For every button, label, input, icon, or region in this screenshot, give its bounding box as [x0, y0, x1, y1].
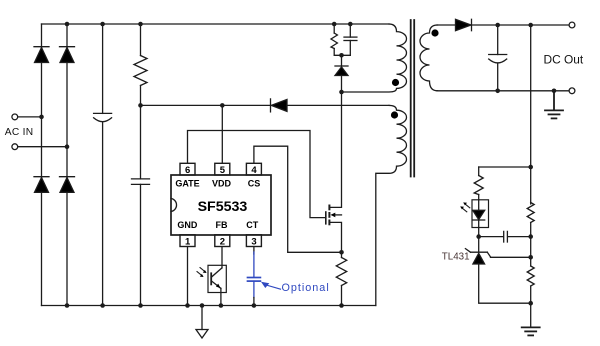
label CS pin name [248, 179, 261, 189]
label pin number 3 [251, 236, 256, 247]
pin 2 box [215, 235, 230, 247]
wire CS pin4 to sense node [254, 146, 342, 252]
node feedback branch junction [528, 165, 533, 170]
label GND pin name [177, 220, 198, 230]
wire output return rail [437, 90, 569, 92]
label VDD pin name [212, 179, 232, 189]
svg-text:DC Out: DC Out [544, 53, 584, 67]
optocoupler U2 phototransistor box [208, 265, 226, 292]
wire gate pin6 to MOSFET [188, 131, 326, 218]
resistor R2 (clamp) [331, 24, 350, 55]
transistor Q1 (power MOSFET) [326, 92, 342, 252]
svg-text:CS: CS [248, 179, 261, 189]
label AC IN [5, 127, 34, 138]
label pin number 6 [185, 165, 190, 176]
capacitor C1 (bulk electrolytic) [94, 24, 112, 306]
transistor Q2 (opto NPN) [211, 268, 222, 306]
node feedback divider tap [528, 23, 533, 28]
transformer T1 auxiliary winding [376, 105, 407, 305]
node primary phase dot [392, 79, 399, 86]
diode D5 (VDD rectifier, pointing left) [271, 99, 390, 112]
wire secondary top to output diode [437, 24, 455, 26]
wire bridge column 1 [41, 24, 43, 306]
wire GND pin1 lead [187, 247, 189, 306]
node snubber R tap [332, 22, 337, 27]
label pin number 5 [220, 165, 226, 176]
label SF5533 [198, 199, 248, 215]
resistor R5 (divider lower) [527, 266, 534, 326]
diode D1 (bridge top-left) [34, 47, 49, 63]
label Optional (blue) [282, 282, 330, 294]
wire TL431 ref to divider [491, 256, 531, 258]
capacitor C5 (output electrolytic) [489, 25, 507, 91]
node rail bulk cap [100, 303, 105, 308]
label pin number 1 [185, 236, 191, 247]
label pin number 4 [251, 165, 257, 176]
node rail ground tap [200, 303, 205, 308]
node rail bridge col2 [65, 303, 70, 308]
resistor R6 (opto LED series) [474, 167, 483, 200]
ground (output return) [545, 93, 563, 118]
node secondary phase dot [431, 29, 438, 36]
node rail GND pin [185, 303, 190, 308]
label CT pin name [246, 220, 258, 230]
label GATE pin name [175, 179, 199, 189]
diode D6 (clamp, cathode up) [335, 55, 348, 92]
node rail VDD cap [138, 303, 143, 308]
node top rail junction at bulk cap [100, 22, 105, 27]
node snubber C tap [348, 22, 353, 27]
label FB pin name [216, 220, 228, 230]
node auxiliary phase dot [391, 111, 398, 118]
svg-text:4: 4 [251, 165, 257, 176]
svg-text:2: 2 [220, 236, 225, 247]
wire CT cap to ground rail [253, 298, 255, 306]
light arrows into opto transistor [197, 268, 207, 277]
wire VDD line [141, 104, 271, 106]
wire bottom ground rail [42, 305, 376, 307]
node VDD tap on startup column [138, 103, 143, 108]
capacitor C3 (clamp) [344, 24, 357, 55]
diode D3 (bridge bottom-left) [34, 177, 49, 193]
svg-text:GND: GND [177, 220, 198, 230]
node divider bottom junction [528, 301, 533, 306]
diode D8 (opto LED) [473, 200, 485, 237]
label pin number 2 [220, 236, 225, 247]
light arrows out of opto LED [460, 202, 470, 211]
label TL431 [442, 252, 470, 263]
node AC line1 to column1 [39, 115, 44, 120]
svg-text:GATE: GATE [175, 179, 199, 189]
terminal DC Out positive [569, 22, 575, 28]
svg-text:3: 3 [251, 236, 256, 247]
terminal DC Out negative [569, 88, 575, 94]
svg-text:VDD: VDD [212, 179, 232, 189]
node output cap negative tap [495, 89, 500, 94]
node CS / source / sense junction [339, 250, 344, 255]
wire top rail [42, 23, 390, 25]
node clamp RC junction [339, 53, 344, 58]
svg-text:FB: FB [216, 220, 228, 230]
pin 3 box [246, 235, 261, 247]
node VDD pin5 junction [220, 103, 225, 108]
node sense resistor to rail [339, 303, 344, 308]
svg-text:SF5533: SF5533 [198, 199, 248, 215]
svg-text:AC IN: AC IN [5, 127, 34, 138]
node rail opto emitter [219, 303, 224, 308]
diode D7 (output rectifier) [456, 19, 472, 30]
node TL431 ref tap [528, 255, 533, 260]
svg-text:6: 6 [185, 165, 190, 176]
wire FB pin2 lead [221, 247, 223, 268]
IC U1 SF5533 body [171, 175, 271, 235]
node rail CT cap [252, 303, 257, 308]
transformer T1 primary winding [342, 24, 407, 92]
capacitor C4 (optional CT cap, blue) [248, 252, 261, 298]
wire bridge column 2 [66, 24, 68, 306]
node AC line2 to column2 [65, 144, 70, 149]
transformer T1 secondary winding [420, 25, 438, 91]
wire feedback sense column [530, 25, 532, 204]
resistor R4 (divider upper) [527, 203, 534, 267]
transformer T1 core [411, 20, 415, 177]
diode D2 (bridge top-right) [60, 47, 75, 63]
node output ground tap [552, 89, 557, 94]
wire CT pin3 lead stub [253, 247, 255, 254]
pin 4 box [246, 163, 261, 175]
arrow optional callout (blue) [261, 282, 281, 290]
svg-text:5: 5 [220, 165, 226, 176]
node top rail junction at bridge col2 [65, 22, 70, 27]
node drain junction (primary bottom / clamp) [339, 90, 344, 95]
pin 5 box [215, 163, 230, 175]
wire feedback top link [479, 166, 531, 168]
pin 1 box [180, 235, 195, 247]
wire VDD pin5 lead [221, 105, 223, 163]
ground (secondary feedback) [522, 327, 540, 335]
capacitor C2 (VDD bypass) [132, 179, 150, 306]
resistor R3 (current sense) [336, 252, 346, 305]
diode D4 (bridge bottom-right) [60, 177, 75, 193]
svg-text:Optional: Optional [282, 282, 330, 294]
svg-text:CT: CT [246, 220, 258, 230]
capacitor C6 (compensation) [479, 231, 531, 242]
node top rail junction at startup resistor [138, 22, 143, 27]
resistor R1 (startup) [134, 24, 147, 179]
label DC Out [544, 53, 584, 67]
svg-text:TL431: TL431 [442, 252, 470, 263]
terminal AC IN line 2 [12, 144, 67, 150]
wire output positive rail [472, 24, 569, 26]
terminal AC IN line 1 [12, 114, 42, 120]
ground (primary, arrow style) [196, 306, 208, 339]
node opto LED / TL431 / comp cap junction [476, 234, 481, 239]
node compensation cap right tap [528, 234, 533, 239]
svg-text:1: 1 [185, 236, 191, 247]
node output cap positive tap [495, 23, 500, 28]
optocoupler U2 LED box [472, 200, 489, 228]
pin 6 box [180, 163, 195, 175]
shunt regulator U3 TL431 [465, 237, 530, 304]
